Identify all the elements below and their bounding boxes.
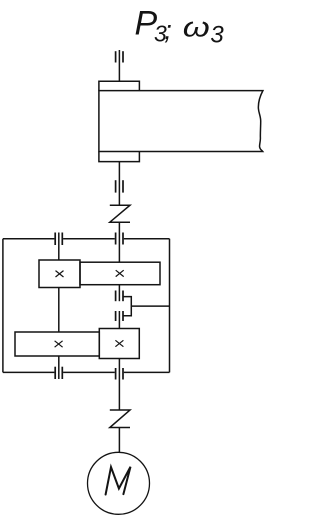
wire: input shaft to coupling 2 [118,359,120,411]
wire: countershaft lower segment [58,356,60,379]
wire: coupling 1 to gearbox input top [118,222,120,262]
wire: drum shaft to coupling 1 [118,162,120,206]
bearing B4 output shaft on top wall [116,233,123,245]
bearing B3 left shaft on top wall [55,233,62,246]
wire: countershaft middle segment [58,288,60,333]
wire: output shaft lower end [118,285,120,302]
motor M circle [88,452,150,514]
svg-text:3: 3 [210,22,224,49]
gear Z4 bottom-right pinion [99,329,139,359]
mid support bracket [123,297,170,316]
svg-text:;: ; [164,15,172,45]
drum hub top [99,81,139,90]
bearing B8 input shaft on bottom wall [116,368,123,380]
wire: input shaft upper end [118,311,120,329]
gear Z1 top-left pinion [39,260,80,288]
wire: coupling 2 to motor [118,428,120,453]
bearing B2 below drum [116,180,123,192]
bearing B7 left shaft on bottom wall [55,367,62,379]
coupling MU2 zigzag [110,410,130,428]
wire: countershaft upper segment [58,233,60,261]
mid bearing B5 [116,291,123,302]
wire: drum shaft upper segment [118,50,120,81]
label P3; omega3 [135,5,225,49]
mid bearing B6 [116,311,123,321]
gearbox housing [3,239,170,373]
gear Z2 top-right wheel [80,262,160,285]
motor letter M [106,467,131,495]
drum hub bottom [99,152,139,162]
svg-text:ω: ω [183,12,210,43]
coupling MU1 zigzag [110,205,130,222]
bearing B1 top of drum shaft [116,51,123,62]
gear Z3 bottom-left wheel [15,332,99,356]
drum body with break line [99,91,263,152]
